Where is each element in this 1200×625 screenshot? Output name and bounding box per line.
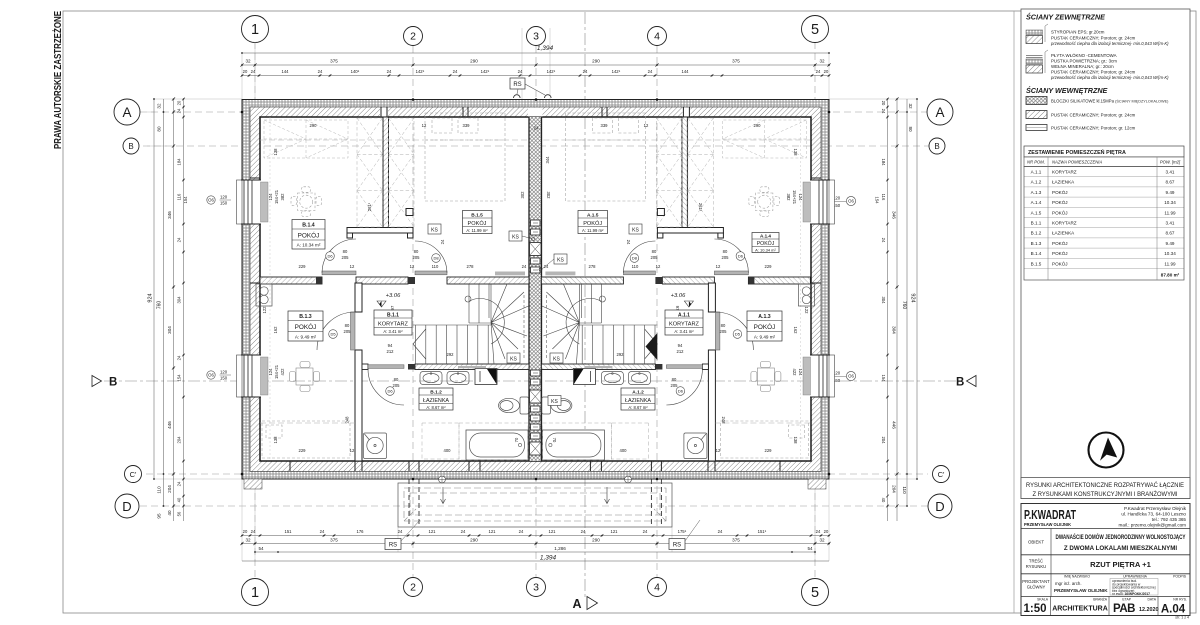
svg-text:ŁAZIENKA: ŁAZIENKA [1052, 180, 1075, 185]
svg-text:205: 205 [671, 383, 679, 388]
svg-text:20: 20 [824, 529, 829, 534]
svg-text:5: 5 [811, 585, 819, 601]
svg-text:70: 70 [514, 437, 519, 442]
svg-text:ARCHITEKTURA: ARCHITEKTURA [1052, 606, 1108, 613]
svg-text:A: 10.34 m²: A: 10.34 m² [755, 247, 776, 252]
svg-text:ETAP: ETAP [1122, 598, 1131, 602]
svg-text:A: 10.34 m²: A: 10.34 m² [297, 243, 321, 248]
svg-text:A: 8.67 m²: A: 8.67 m² [628, 405, 648, 410]
svg-text:24: 24 [251, 529, 256, 534]
svg-text:B.1.4: B.1.4 [1031, 251, 1042, 256]
svg-text:140⁵: 140⁵ [351, 69, 360, 74]
svg-text:446: 446 [167, 421, 172, 429]
outer wall masonry ring [250, 107, 821, 472]
svg-text:Z RYSUNKAMI KONSTRUKCYJNYMI I: Z RYSUNKAMI KONSTRUKCYJNYMI I BRANŻOWYMI [1033, 489, 1178, 498]
svg-text:205: 205 [344, 329, 352, 334]
stairs lower flight [413, 325, 491, 364]
bathroom door [368, 365, 404, 369]
rooms table [1024, 146, 1184, 167]
svg-text:80: 80 [723, 249, 728, 254]
B.1.3 radiator [256, 284, 272, 306]
svg-text:80: 80 [414, 249, 419, 254]
svg-text:A: 3.41 m²: A: 3.41 m² [674, 329, 694, 334]
svg-text:B.1.3: B.1.3 [1031, 241, 1042, 246]
door to B.1.5 [415, 271, 447, 275]
svg-text:248: 248 [345, 416, 350, 424]
svg-text:POKÓJ: POKÓJ [1052, 189, 1068, 195]
svg-text:122: 122 [804, 307, 809, 315]
svg-text:24: 24 [522, 264, 527, 269]
svg-text:B.1.5: B.1.5 [1031, 261, 1042, 266]
svg-text:KS: KS [632, 227, 639, 233]
svg-text:24: 24 [320, 529, 325, 534]
svg-text:346: 346 [892, 211, 897, 219]
svg-text:12: 12 [350, 448, 355, 453]
divider wall B.1.4/B.1.5 [383, 117, 389, 233]
B.1.4 [292, 220, 325, 250]
svg-text:87.80 m²: 87.80 m² [1161, 273, 1180, 278]
svg-text:1: 1 [251, 585, 259, 601]
svg-text:P.KWADRAT: P.KWADRAT [1024, 507, 1076, 522]
outer wall insulation ring [242, 100, 829, 480]
svg-text:261¹: 261¹ [698, 203, 703, 212]
svg-text:BLOCZKI SILIKATOWE kl.15MPa (Ś: BLOCZKI SILIKATOWE kl.15MPa (ŚCIANY MIĘD… [1051, 99, 1169, 104]
svg-text:RS: RS [513, 82, 521, 88]
svg-text:D6: D6 [387, 389, 393, 394]
svg-text:24: 24 [453, 69, 458, 74]
svg-text:302: 302 [520, 191, 525, 199]
svg-text:24: 24 [440, 239, 445, 244]
svg-text:PROJEKTANT: PROJEKTANT [1022, 579, 1050, 584]
svg-text:229: 229 [765, 264, 773, 269]
svg-text:tel.: 792 435 365: tel.: 792 435 365 [1152, 517, 1187, 522]
svg-text:B: B [956, 377, 964, 389]
svg-text:B.1.3: B.1.3 [299, 314, 312, 320]
svg-text:122: 122 [262, 306, 267, 314]
svg-text:138: 138 [793, 149, 798, 157]
section markers B [92, 376, 976, 610]
svg-text:24: 24 [519, 529, 524, 534]
svg-text:24: 24 [816, 69, 821, 74]
svg-text:TREŚĆ: TREŚĆ [1029, 559, 1043, 564]
svg-text:A.1.5: A.1.5 [1031, 210, 1042, 215]
svg-text:142⁵: 142⁵ [481, 69, 490, 74]
svg-text:116: 116 [881, 194, 886, 201]
svg-text:B.1.2: B.1.2 [1031, 231, 1042, 236]
A.1.1 [665, 310, 703, 335]
B.1.3 [288, 311, 323, 341]
svg-text:292: 292 [617, 352, 625, 357]
svg-text:+3.06: +3.06 [386, 293, 401, 299]
svg-text:RS: RS [389, 543, 397, 549]
light guide lines [147, 28, 917, 561]
svg-text:12: 12 [350, 264, 355, 269]
svg-text:B: B [128, 142, 133, 151]
svg-text:POKÓJ: POKÓJ [468, 220, 487, 227]
washer [475, 369, 497, 385]
svg-text:RS: RS [673, 543, 681, 549]
svg-text:NR RYS.: NR RYS. [1173, 598, 1187, 602]
svg-text:24: 24 [648, 69, 653, 74]
svg-text:12: 12 [716, 264, 721, 269]
svg-text:175⁵: 175⁵ [678, 529, 687, 534]
svg-text:80: 80 [157, 126, 162, 132]
svg-text:142⁵: 142⁵ [547, 69, 556, 74]
svg-text:290: 290 [592, 59, 600, 64]
svg-text:D5: D5 [735, 332, 741, 337]
svg-text:KORYTARZ: KORYTARZ [1052, 221, 1077, 226]
svg-text:nr ewid: 16/WPOKK/2017: nr ewid: 16/WPOKK/2017 [1112, 592, 1150, 596]
svg-text:D5: D5 [330, 332, 336, 337]
svg-text:292: 292 [447, 352, 455, 357]
svg-text:D: D [122, 499, 131, 514]
svg-text:24: 24 [626, 240, 631, 245]
svg-text:PUSTAK CERAMICZNY; Poroton; gr: PUSTAK CERAMICZNY; Poroton; gr. 12cm [1051, 126, 1136, 131]
svg-text:375: 375 [732, 59, 740, 64]
svg-text:80: 80 [345, 323, 350, 328]
svg-text:PRZEMYSŁAW OLEJNIK: PRZEMYSŁAW OLEJNIK [1054, 588, 1108, 593]
svg-text:304: 304 [881, 297, 886, 305]
svg-text:O6: O6 [208, 198, 214, 203]
svg-text:400: 400 [620, 448, 628, 453]
svg-text:8.67: 8.67 [1166, 180, 1175, 185]
svg-text:KS: KS [431, 227, 438, 233]
svg-text:144: 144 [282, 69, 290, 74]
svg-text:A: A [572, 597, 581, 611]
swatch 2 [1026, 50, 1169, 80]
A.1.4 [752, 233, 779, 253]
svg-text:PODPIS: PODPIS [1173, 575, 1187, 579]
svg-text:D6: D6 [738, 254, 744, 259]
svg-text:110: 110 [432, 264, 439, 269]
svg-text:ŚCIANY WEWNĘTRZNE: ŚCIANY WEWNĘTRZNE [1026, 86, 1108, 95]
svg-text:11.99: 11.99 [1164, 261, 1176, 266]
central party wall [529, 117, 542, 461]
svg-text:138: 138 [793, 437, 798, 445]
svg-text:138: 138 [273, 148, 278, 156]
svg-text:344: 344 [545, 156, 550, 164]
svg-text:3.41: 3.41 [1166, 221, 1175, 226]
svg-text:24: 24 [534, 126, 539, 131]
svg-text:205: 205 [651, 255, 659, 260]
B.1.5 bed dashed [425, 113, 505, 201]
svg-text:20: 20 [177, 100, 182, 105]
windows right wall [803, 180, 835, 397]
svg-text:95: 95 [157, 513, 162, 519]
svg-text:184: 184 [881, 159, 886, 167]
svg-text:ZESTAWIENIE POMIESZCZEŃ PIĘTRA: ZESTAWIENIE POMIESZCZEŃ PIĘTRA [1028, 148, 1126, 156]
svg-text:POKÓJ: POKÓJ [1052, 250, 1068, 256]
svg-text:110: 110 [902, 486, 907, 494]
north arrow [1089, 433, 1124, 468]
svg-text:32: 32 [157, 103, 162, 109]
svg-text:KORYTARZ: KORYTARZ [669, 322, 700, 328]
svg-text:121: 121 [489, 529, 497, 534]
svg-text:C': C' [130, 470, 137, 479]
svg-text:WEŁNA MINERALNA; gr.: 20cm: WEŁNA MINERALNA; gr.: 20cm [1051, 64, 1114, 69]
svg-text:138: 138 [273, 436, 278, 444]
svg-text:32: 32 [245, 538, 251, 543]
svg-text:176: 176 [357, 529, 365, 534]
svg-text:154: 154 [875, 197, 880, 205]
svg-text:PŁYTA WŁÓKNO -CEMENTOWA: PŁYTA WŁÓKNO -CEMENTOWA [1051, 53, 1117, 58]
svg-text:2: 2 [410, 31, 416, 43]
svg-text:KS: KS [510, 356, 517, 362]
svg-text:PUSTAK CERAMICZNY; Poroton; gr: PUSTAK CERAMICZNY; Poroton; gr. 24cm [1051, 35, 1136, 40]
svg-text:24: 24 [718, 529, 723, 534]
svg-text:A.1.1: A.1.1 [678, 312, 690, 318]
svg-text:PRZEMYSŁAW OLEJNIK: PRZEMYSŁAW OLEJNIK [1024, 522, 1071, 528]
svg-text:124: 124 [268, 368, 273, 376]
svg-text:DWANAŚCIE DOMÓW JEDNORODZINNY: DWANAŚCIE DOMÓW JEDNORODZINNY WOLNOSTOJĄ… [1056, 533, 1187, 541]
svg-text:+3.06: +3.06 [671, 293, 686, 299]
svg-text:A.1.2: A.1.2 [632, 389, 644, 395]
svg-text:PUSTAK CERAMICZNY; Poroton; gr: PUSTAK CERAMICZNY; Poroton; gr. 24cm [1051, 113, 1136, 118]
svg-text:12: 12 [644, 123, 649, 128]
svg-text:ŁAZIENKA: ŁAZIENKA [423, 398, 449, 404]
svg-text:B.1.1: B.1.1 [1031, 221, 1042, 226]
svg-text:przewodność cieplna dla izolac: przewodność cieplna dla izolacji termicz… [1050, 41, 1169, 46]
svg-text:150: 150 [220, 376, 228, 381]
svg-text:A: A [935, 105, 944, 120]
svg-text:304: 304 [167, 326, 172, 334]
svg-text:290: 290 [754, 123, 762, 128]
svg-text:204: 204 [881, 437, 886, 445]
svg-text:924: 924 [910, 293, 916, 302]
svg-text:Z DWOMA LOKALAMI MIESZKALNYMI: Z DWOMA LOKALAMI MIESZKALNYMI [1064, 545, 1177, 552]
svg-text:290: 290 [470, 59, 478, 64]
A.1.3 [747, 311, 782, 341]
svg-text:229: 229 [299, 448, 307, 453]
svg-text:205: 205 [393, 383, 401, 388]
row 2 obiekt [1050, 529, 1052, 555]
svg-text:B.1.5: B.1.5 [471, 212, 483, 218]
svg-text:20: 20 [243, 69, 248, 74]
svg-text:P.Kwadrat Przemysław Olejnik: P.Kwadrat Przemysław Olejnik [1124, 506, 1187, 511]
svg-text:2: 2 [410, 582, 416, 594]
terrace dashed outline below [398, 483, 672, 527]
svg-text:32: 32 [819, 59, 825, 64]
svg-text:24: 24 [177, 237, 182, 242]
svg-text:1,394: 1,394 [537, 45, 554, 52]
svg-text:422: 422 [280, 368, 285, 376]
svg-text:400: 400 [444, 448, 452, 453]
svg-text:154: 154 [881, 375, 886, 383]
svg-text:80: 80 [721, 323, 726, 328]
RS bottom boxes [385, 539, 401, 550]
svg-text:205: 205 [342, 255, 350, 260]
svg-text:O6: O6 [208, 373, 214, 378]
svg-text:10.34: 10.34 [1164, 251, 1176, 256]
wardrobe niche walls [347, 228, 413, 234]
svg-text:80: 80 [908, 126, 913, 132]
row 4 projektant [1050, 574, 1052, 597]
svg-text:20: 20 [881, 101, 886, 106]
svg-text:O6: O6 [848, 199, 854, 204]
svg-text:A.1.1: A.1.1 [1031, 170, 1042, 175]
svg-text:PUSTKA POWIETRZNA; gr.: 3cm: PUSTKA POWIETRZNA; gr.: 3cm [1051, 59, 1117, 64]
corridor west wall [355, 283, 362, 312]
svg-text:290: 290 [592, 538, 600, 543]
svg-text:B.1.1: B.1.1 [387, 312, 399, 318]
svg-text:A.1.3: A.1.3 [758, 314, 771, 320]
svg-text:151⁵: 151⁵ [758, 529, 767, 534]
svg-text:121: 121 [429, 529, 437, 534]
svg-text:212: 212 [387, 349, 395, 354]
KS shaft boxes on central wall [530, 220, 542, 455]
svg-text:POW. [m2]: POW. [m2] [1160, 160, 1181, 165]
svg-text:150: 150 [220, 201, 228, 206]
svg-text:ŁAZIENKA: ŁAZIENKA [1052, 231, 1075, 236]
svg-text:54: 54 [258, 546, 264, 551]
svg-text:A.1.2: A.1.2 [1031, 180, 1042, 185]
svg-text:154: 154 [177, 374, 182, 382]
svg-text:A: 3.41 m²: A: 3.41 m² [383, 329, 403, 334]
headroom dashed lines [260, 139, 529, 141]
row 5 bottom [1050, 597, 1052, 616]
svg-text:str: 1 z 4: str: 1 z 4 [1175, 616, 1189, 620]
svg-text:20: 20 [243, 529, 248, 534]
svg-text:OBIEKT: OBIEKT [1028, 540, 1044, 545]
masonry joints in outer walls [380, 108, 388, 117]
svg-text:12: 12 [422, 123, 427, 128]
svg-text:RYSUNKU: RYSUNKU [1026, 564, 1046, 569]
svg-text:B.1.2: B.1.2 [430, 389, 442, 395]
door tags [326, 252, 745, 396]
svg-text:D6: D6 [327, 254, 333, 259]
svg-text:1,394: 1,394 [540, 555, 557, 562]
svg-text:54: 54 [807, 546, 813, 551]
swatch 1 [1026, 24, 1169, 46]
svg-text:POKÓJ: POKÓJ [1052, 260, 1068, 266]
svg-text:154: 154 [183, 196, 188, 204]
svg-text:24: 24 [581, 529, 586, 534]
south wall of top rooms (corridor north wall) [260, 277, 529, 284]
svg-text:40: 40 [167, 510, 172, 516]
svg-text:446: 446 [892, 421, 897, 429]
svg-text:1,286: 1,286 [554, 546, 566, 551]
svg-text:1:50: 1:50 [1023, 603, 1046, 615]
svg-text:229: 229 [299, 264, 307, 269]
svg-text:A: 11.99 m²: A: 11.99 m² [466, 228, 488, 233]
svg-text:142⁵: 142⁵ [416, 69, 425, 74]
svg-text:80: 80 [652, 249, 657, 254]
svg-text:110: 110 [632, 264, 639, 269]
KS labels [428, 224, 642, 406]
dimension chains bottom [242, 536, 829, 562]
gray lintel band over corridor wall [495, 272, 525, 276]
A.1.5 [578, 211, 608, 234]
svg-text:124: 124 [268, 193, 273, 201]
svg-text:346: 346 [167, 211, 172, 219]
svg-text:924: 924 [148, 293, 154, 302]
svg-text:POKÓJ: POKÓJ [1052, 199, 1068, 205]
svg-text:24: 24 [518, 69, 523, 74]
svg-text:A: 9.49 m²: A: 9.49 m² [295, 334, 317, 339]
svg-text:24: 24 [387, 69, 392, 74]
svg-text:278: 278 [589, 264, 597, 269]
svg-text:248: 248 [721, 417, 726, 425]
svg-text:POKÓJ: POKÓJ [298, 231, 320, 240]
svg-text:A.1.4: A.1.4 [1031, 200, 1042, 205]
window markers left/right [207, 195, 856, 384]
svg-text:24: 24 [177, 481, 182, 486]
svg-text:80: 80 [672, 377, 677, 382]
svg-text:154+21: 154+21 [274, 189, 279, 204]
svg-text:229: 229 [765, 448, 773, 453]
title block [1021, 504, 1190, 620]
svg-text:KORYTARZ: KORYTARZ [378, 322, 409, 328]
svg-text:24: 24 [318, 69, 323, 74]
svg-text:162: 162 [273, 326, 278, 334]
svg-text:4: 4 [654, 31, 660, 43]
svg-text:97: 97 [675, 306, 680, 311]
bathroom fixtures [420, 372, 469, 385]
svg-text:BRANŻA: BRANŻA [1093, 597, 1107, 602]
svg-text:KORYTARZ: KORYTARZ [1052, 170, 1077, 175]
svg-text:POKÓJ: POKÓJ [754, 322, 776, 331]
svg-text:24: 24 [461, 529, 466, 534]
svg-text:PUSTAK CERAMICZNY; Poroton; gr: PUSTAK CERAMICZNY; Poroton; gr. 24cm [1051, 70, 1136, 75]
wardrobe dashed strips with X [357, 118, 414, 227]
svg-text:POKÓJ: POKÓJ [295, 322, 317, 331]
section lines [104, 380, 960, 382]
svg-text:24: 24 [177, 355, 182, 360]
svg-text:mail.: przemo.olejnik@gmail.co: mail.: przemo.olejnik@gmail.com [1119, 523, 1187, 528]
swatch 4 [1026, 111, 1047, 119]
svg-text:205: 205 [413, 255, 421, 260]
svg-text:mgr inż. arch.: mgr inż. arch. [1055, 581, 1082, 586]
RS top [510, 78, 525, 89]
svg-text:278: 278 [467, 264, 475, 269]
door to B.1.3 [351, 312, 356, 350]
svg-text:C': C' [938, 470, 945, 479]
svg-text:KS: KS [557, 257, 564, 263]
B.1.5 [463, 211, 493, 234]
svg-text:B.1.4: B.1.4 [302, 223, 315, 229]
svg-text:POKÓJ: POKÓJ [1052, 240, 1068, 246]
dimension chains top [242, 53, 829, 76]
svg-text:290: 290 [310, 123, 318, 128]
shower [364, 433, 387, 459]
svg-text:ŁAZIENKA: ŁAZIENKA [625, 398, 651, 404]
svg-text:261¹: 261¹ [367, 202, 372, 211]
swatch 5 [1026, 125, 1047, 131]
svg-text:204: 204 [892, 485, 897, 493]
svg-text:304: 304 [892, 326, 897, 334]
svg-text:PAB: PAB [1113, 603, 1135, 615]
small wall box [406, 209, 413, 216]
svg-text:375: 375 [330, 538, 338, 543]
svg-text:760: 760 [901, 301, 907, 310]
svg-text:O6: O6 [848, 374, 854, 379]
svg-text:POKÓJ: POKÓJ [757, 240, 775, 247]
svg-text:339: 339 [463, 123, 471, 128]
svg-text:120: 120 [220, 195, 228, 200]
svg-text:A: A [122, 105, 131, 120]
svg-text:A.1.5: A.1.5 [587, 212, 599, 218]
svg-text:24: 24 [544, 264, 549, 269]
svg-text:A.1.4: A.1.4 [760, 234, 771, 239]
svg-text:ul. Handlcka 73, 64-100 Leszno: ul. Handlcka 73, 64-100 Leszno [1121, 512, 1186, 517]
svg-text:204: 204 [167, 485, 172, 493]
B.1.3 table [290, 362, 320, 392]
svg-text:3: 3 [533, 582, 539, 594]
interior small dims [299, 123, 773, 453]
dimension chains left [154, 99, 184, 521]
svg-text:A: 11.99 m²: A: 11.99 m² [582, 228, 604, 233]
svg-text:184: 184 [177, 158, 182, 166]
